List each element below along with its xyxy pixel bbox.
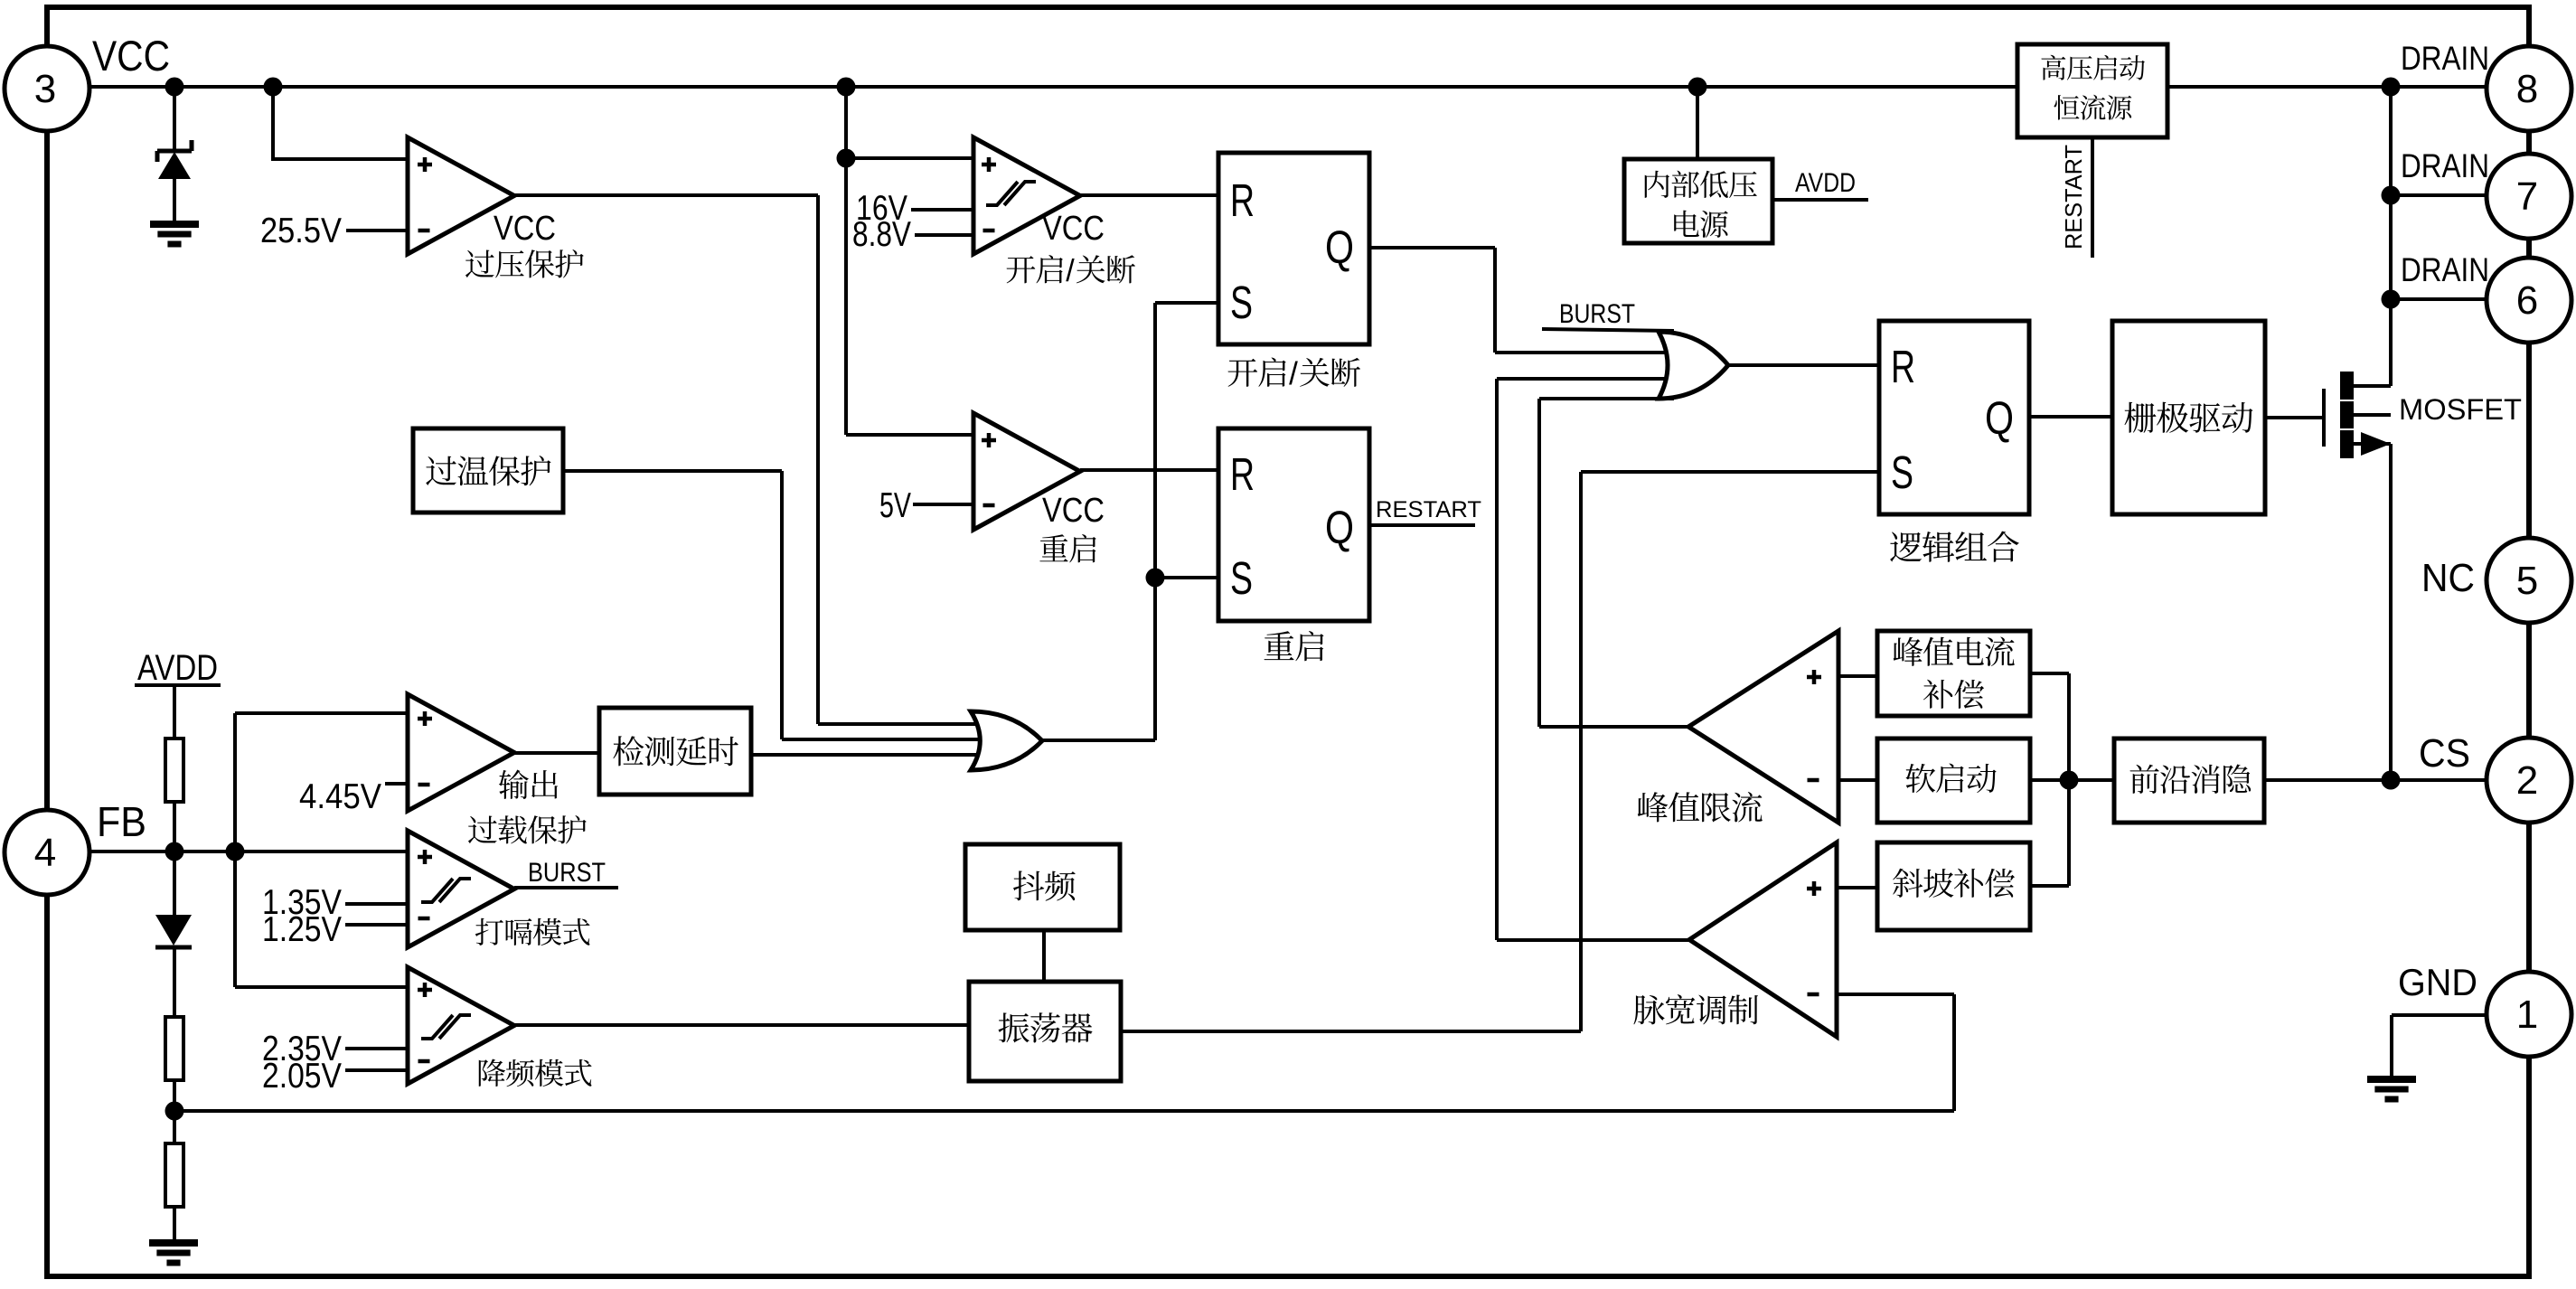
comparator U8 PWM [1689,842,1837,1037]
wire 1.25V stub [345,923,408,927]
junction drain pin7 [2382,186,2401,205]
wire FB divider [173,802,176,851]
svg-text:VCC: VCC [1042,210,1105,248]
resistor R2 [165,1017,183,1080]
resistor R1 [165,739,183,802]
wire 2.35V stub [345,1047,408,1050]
wire AVDD stub LDO [1772,198,1868,202]
svg-text:4.45V: 4.45V [299,777,381,816]
junction S node [1146,569,1165,588]
svg-text:RESTART: RESTART [2060,145,2087,249]
diode D2 [155,915,192,946]
wire C3 output to FF2 R [1080,468,1218,472]
svg-text:/: / [1289,356,1298,391]
flip-flop FF3 logic combination [1879,321,2029,514]
comparator U6 frequency reduction [408,967,514,1084]
wire comparator input stubs right [1838,674,1877,678]
pin 4 FB [5,810,89,895]
pin 1 GND [2487,972,2571,1057]
svg-text:DRAIN: DRAIN [2401,251,2489,288]
svg-text:DRAIN: DRAIN [2401,40,2489,77]
junction VCC-LDO [1688,78,1707,97]
wire FF1 Q to OR2 [1369,246,1495,249]
comparator U4 output overload [408,694,514,811]
label FF2 重启 [1264,631,1294,660]
block 峰值电流补偿 [1877,631,2030,716]
resistor R3 [165,1143,183,1207]
wire pin6 stub [2391,297,2487,301]
block 检测延时 [599,708,751,795]
wire C5 BURST output [514,886,618,889]
wire zener branch [173,87,176,152]
junction compensation node [2060,771,2079,790]
wire oscillator output to logic S [1121,1030,1581,1033]
wire C4 output to detect-delay [514,751,599,755]
wire detect-delay output to OR1 [751,753,987,757]
svg-text:BURST: BURST [528,858,606,888]
ground at GND pin [2367,1076,2416,1083]
svg-text:Q: Q [1325,502,1354,553]
svg-text:Q: Q [1325,221,1354,273]
wire OTP output to OR1 [563,469,782,473]
svg-text:4: 4 [34,831,56,875]
zener diode D1 [158,152,191,179]
wire GND pin to ground [2392,1013,2487,1017]
svg-text:5V: 5V [879,486,911,525]
label U4 过载保护 [468,816,497,844]
junction FB-comparators [226,842,245,861]
svg-text:MOSFET: MOSFET [2399,393,2522,426]
wire logic Q to gate driver [2029,415,2112,419]
wire compensation bus [2067,673,2071,886]
svg-text:6: 6 [2516,278,2538,323]
block 栅极驱动 [2112,321,2265,514]
ground below FB divider [149,1239,198,1247]
wire C2 output to FF1 R [1080,193,1218,197]
wire 16V stub [911,208,973,212]
svg-text:7: 7 [2516,174,2538,219]
svg-text:R: R [1230,448,1255,500]
wire C1 output to OR1 [514,193,818,197]
pin 6 DRAIN [2487,258,2571,343]
svg-text:RESTART: RESTART [1376,497,1481,522]
wire pin7 stub [2391,193,2487,197]
svg-text:S: S [1891,447,1913,498]
label U6 降频模式 [479,1059,505,1087]
wire 25.5V stub [346,229,408,232]
svg-text:3: 3 [34,67,56,111]
wire gate driver to MOSFET gate [2265,416,2324,419]
svg-text:GND: GND [2398,961,2477,1003]
label U1 过压保护 [465,250,494,278]
wire drain bus [2389,87,2393,386]
block 软启动 [1877,739,2030,823]
svg-text:1.25V: 1.25V [262,910,342,949]
svg-text:1: 1 [2516,993,2538,1037]
wire 2.05V stub [345,1068,408,1072]
svg-text:S: S [1230,277,1253,328]
block 过温保护 [413,428,563,513]
svg-text:AVDD: AVDD [137,648,218,688]
junction VCC-drainbus [2382,78,2401,97]
wire MOSFET drain stub [2354,384,2391,388]
wire FF2 Q RESTART [1369,523,1475,527]
wire 4.45V stub [385,782,408,786]
or-gate OR2 [1659,332,1728,399]
wire MOSFET source stub [2354,442,2391,446]
label FF1 开启/关断 [1228,359,1258,387]
flip-flop FF1 on/off [1218,153,1369,344]
comparator U1 VCC overvoltage [408,137,514,254]
wire MOSFET body stub [2354,413,2391,417]
label U7 峰值限流 [1638,792,1668,822]
label U3 重启 [1039,534,1067,561]
junction C2 plus [837,149,856,168]
wire VCC rail [89,85,2487,89]
block 前沿消隐 [2114,739,2264,823]
wire BURST to OR2 [1542,329,1674,331]
pin 7 DRAIN [2487,154,2571,239]
block 斜坡补偿 [1877,842,2030,930]
junction drain pin6 [2382,290,2401,309]
svg-text:8: 8 [2516,67,2538,111]
wire AVDD underline FB [135,683,221,687]
label U4 输出 [499,769,529,799]
label U8 脉宽调制 [1633,995,1664,1024]
wire RESTART stub HV startup [2091,137,2094,258]
wire VCC to internal LDO [1696,87,1699,159]
or-gate OR1 [971,711,1042,770]
wire 5V stub [913,503,973,506]
wire C1 + input from VCC [271,87,275,159]
wire peak-limit output to OR2 [1537,399,1541,727]
svg-text:R: R [1230,174,1255,226]
pin 3 VCC [5,46,89,131]
wire 8.8V stub [915,233,973,237]
block 高压启动恒流源 [2017,44,2167,137]
svg-text:25.5V: 25.5V [260,212,342,250]
wire FB feedback to PWM - input [174,1109,1954,1113]
junction FB-feedback [165,1102,184,1121]
svg-text:VCC: VCC [494,210,556,248]
wire jitter to oscillator [1042,929,1046,982]
flip-flop FF2 restart [1218,428,1369,621]
wire PWM output to OR2 [1495,379,1499,940]
wire VCC to C2/C3 + inputs [844,87,848,435]
svg-text:DRAIN: DRAIN [2401,147,2489,184]
wire source bus to CS [2389,444,2393,780]
junction FB-divider [165,842,184,861]
ground below zener [150,221,199,228]
label FF3 逻辑组合 [1890,532,1922,561]
comparator U2 VCC on/off [973,137,1080,254]
svg-text:5: 5 [2516,559,2538,603]
wire FB to C4/C6 + inputs [233,713,237,987]
pin 2 CS [2487,738,2571,823]
junction VCC-zener [165,78,184,97]
wire OR1 output to S inputs [1039,739,1155,742]
svg-text:NC: NC [2421,556,2475,600]
svg-text:/: / [1066,254,1075,288]
comparator U7 peak current limit [1688,631,1838,823]
comparator U3 VCC restart [973,413,1080,530]
block 内部低压电源 [1624,159,1772,243]
transistor MOSFET [2322,389,2326,447]
comparator U5 burst mode [408,831,514,947]
pin 5 NC [2487,538,2571,623]
svg-text:AVDD: AVDD [1795,168,1856,198]
wire 1.35V stub [345,902,408,906]
svg-text:8.8V: 8.8V [852,215,911,254]
svg-text:R: R [1891,341,1915,392]
svg-text:CS: CS [2419,731,2470,776]
junction CS node [2382,771,2401,790]
svg-text:2.05V: 2.05V [262,1057,342,1096]
wire C6 output to oscillator [514,1023,969,1027]
wire OR2 output to logic R [1726,363,1879,367]
block 抖频 [965,844,1120,930]
block 振荡器 [969,982,1121,1081]
junction VCC-C1 [264,78,283,97]
svg-text:Q: Q [1985,392,2014,444]
svg-text:VCC: VCC [1042,492,1105,530]
wire LEB output to CS pin [2264,778,2487,782]
label U5 打嗝模式 [475,918,503,946]
svg-text:FB: FB [97,798,146,845]
wire FB rail [89,850,408,853]
svg-text:S: S [1230,552,1253,604]
svg-text:VCC: VCC [92,32,170,80]
svg-text:BURST: BURST [1559,299,1635,329]
pin 8 DRAIN [2487,46,2571,131]
label U2 开启/关断 [1007,256,1036,283]
junction VCC-C2C3 [837,78,856,97]
svg-text:2: 2 [2516,758,2538,803]
